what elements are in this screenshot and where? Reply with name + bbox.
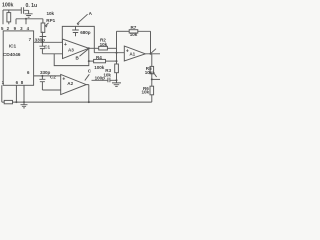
wire bottom rail (2, 101, 152, 103)
wire right vertical (116, 31, 118, 64)
node C leader (85, 74, 90, 80)
wire A2 lower input (42, 89, 60, 91)
wire pin4 stub (25, 19, 27, 24)
wire 680p feedback (62, 26, 94, 52)
capacitor C2 (39, 76, 45, 90)
svg-text:0. 1u: 0. 1u (26, 3, 38, 9)
svg-text:1: 1 (2, 80, 5, 85)
svg-text:+: + (62, 77, 65, 83)
resistor R4 (89, 60, 94, 62)
wire output tap (152, 78, 160, 80)
capacitor C1 (39, 42, 45, 54)
svg-text:330p: 330p (40, 70, 51, 75)
wire A1 plus input (94, 52, 124, 54)
svg-text:A2: A2 (67, 81, 73, 86)
svg-text:100k: 100k (94, 65, 105, 70)
resistor R3 (115, 64, 119, 73)
svg-text:8: 8 (21, 80, 24, 85)
resistor R2 (89, 47, 99, 49)
svg-text:C1: C1 (44, 45, 50, 50)
svg-text:680p: 680p (80, 30, 91, 35)
wire A3 plus input (42, 53, 62, 55)
svg-text:10k: 10k (100, 42, 108, 47)
wire A1 output (145, 49, 160, 54)
wire pin8 stub (23, 85, 25, 102)
wire pin6 (34, 75, 61, 77)
wire A3 feedback loop (54, 48, 89, 65)
junction dots (25, 18, 27, 20)
op-amp A1 (124, 46, 145, 61)
svg-text:C: C (88, 69, 92, 74)
svg-text:R7: R7 (131, 25, 137, 30)
capacitor 0.1u (21, 7, 28, 14)
wire pin7 (34, 41, 63, 43)
svg-text:B: B (76, 55, 80, 60)
resistor R1 (4, 100, 12, 103)
svg-text:+: + (64, 42, 67, 48)
resistor R6 (151, 79, 153, 86)
svg-text:10k: 10k (142, 89, 150, 94)
wire pin1 (1, 85, 3, 102)
svg-text:6: 6 (16, 80, 19, 85)
IC U1 box (3, 31, 33, 85)
wire top rail (3, 9, 21, 11)
capacitor 100p (92, 78, 117, 83)
svg-text:A1: A1 (129, 51, 135, 56)
op-amp A2 (61, 74, 86, 94)
node B leader (80, 49, 89, 56)
wire pin5 bottom stub (15, 85, 17, 102)
svg-text:100p: 100p (95, 76, 106, 81)
wire pin9 stub (15, 19, 17, 24)
svg-text:6: 6 (27, 70, 30, 75)
ground R3 (112, 83, 121, 87)
svg-text:7: 7 (29, 37, 32, 42)
svg-text:RP1: RP1 (46, 18, 55, 23)
resistor R7 (117, 30, 130, 32)
resistor 100k (8, 10, 10, 24)
svg-text:A3: A3 (68, 48, 74, 53)
wire A2 output (86, 85, 89, 103)
svg-text:10k: 10k (47, 11, 55, 16)
svg-text:100k: 100k (2, 3, 14, 9)
capacitor 680p (72, 26, 79, 36)
svg-text:CD4046: CD4046 (3, 52, 21, 58)
svg-text:IC1: IC1 (9, 44, 17, 50)
node A arrow (77, 14, 88, 24)
potentiometer RP1 (41, 23, 45, 32)
op-amp A3 (63, 39, 89, 59)
svg-text:R4: R4 (96, 55, 102, 60)
svg-text:C2: C2 (50, 75, 56, 80)
svg-text:A: A (89, 11, 93, 16)
wire second rail (16, 19, 43, 23)
ground (25, 14, 33, 17)
svg-text:+: + (126, 48, 129, 54)
svg-text:10k: 10k (130, 32, 138, 37)
svg-text:10k: 10k (145, 70, 153, 75)
wire pin5 stub (2, 10, 4, 24)
ground bottom (21, 102, 28, 108)
svg-text:330p: 330p (35, 38, 46, 43)
pin numbers top (1, 26, 32, 85)
resistor R5 (151, 54, 153, 67)
